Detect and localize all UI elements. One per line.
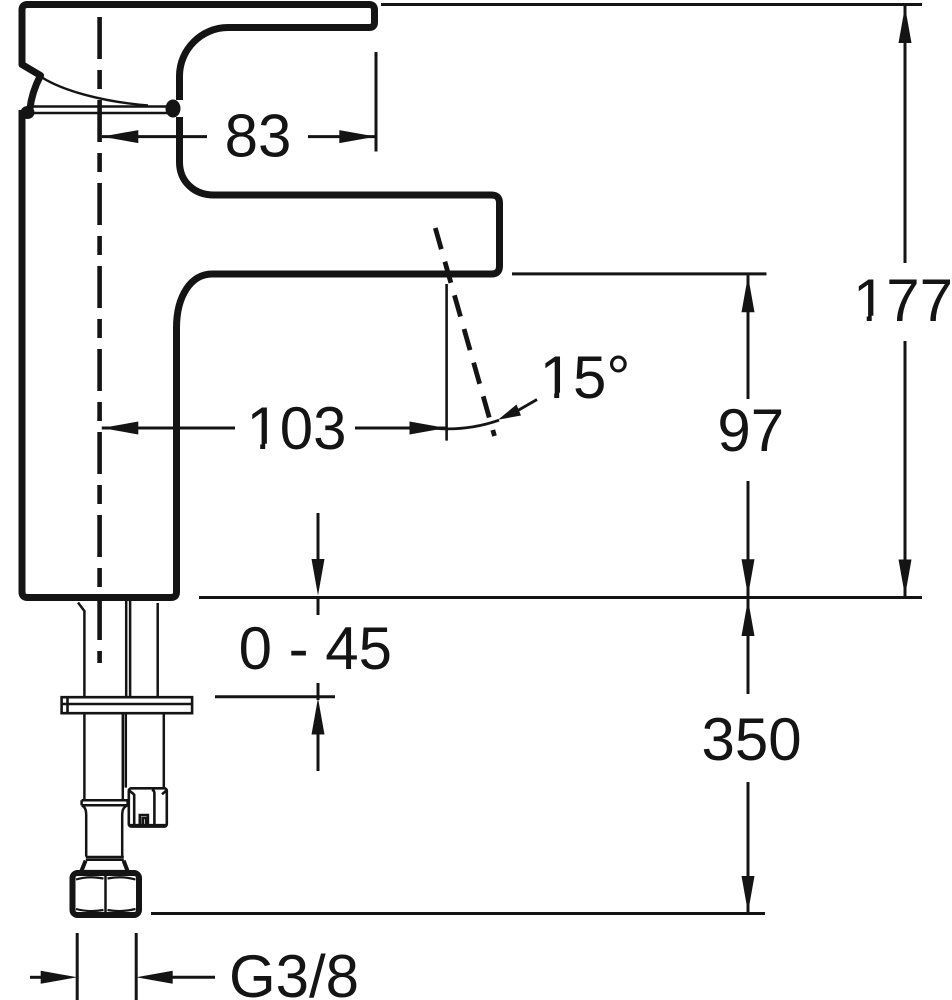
- extension line spout bottom right: [512, 272, 767, 275]
- hose sleeve: [82, 805, 128, 856]
- lever pivot joint left blob: [21, 106, 35, 119]
- angle arc: [436, 420, 499, 429]
- dimension 177: [904, 6, 907, 596]
- hose flare to nut: [81, 861, 127, 871]
- hose nut: [73, 873, 140, 915]
- dimension 0-45 upper arrow: [317, 513, 320, 615]
- hose crimp ring 2: [86, 857, 124, 860]
- lever pivot joint right blob: [166, 100, 181, 118]
- svg-text:350: 350: [702, 706, 802, 773]
- svg-text:G3/8: G3/8: [229, 943, 359, 1000]
- faucet lever handle outline: [22, 5, 375, 111]
- svg-text:15°: 15°: [540, 344, 631, 411]
- faucet body and spout outline: [22, 110, 500, 598]
- mask 1-foot of 103: [249, 444, 261, 450]
- extension line G38 left: [76, 933, 79, 1000]
- hose nut facet shading: [76, 877, 136, 911]
- angle arc arrowhead: [498, 405, 521, 420]
- dimension 103: [102, 427, 446, 430]
- extension line top (lever top level): [381, 3, 922, 6]
- dimension 97: [747, 275, 750, 596]
- svg-text:103: 103: [246, 395, 346, 462]
- hose crimp ring 1: [82, 800, 128, 805]
- svg-text:177: 177: [853, 267, 952, 334]
- dimension 350: [747, 599, 750, 912]
- lever underside curve: [42, 78, 148, 106]
- body centerline dashed: [97, 17, 102, 663]
- angle leader line: [517, 400, 537, 412]
- extension line 83 right: [375, 52, 378, 152]
- hose nut facet divider: [104, 876, 107, 912]
- deck line: [199, 596, 922, 599]
- joint line upper: [27, 105, 168, 107]
- svg-text:83: 83: [225, 103, 292, 170]
- extension line G38 right: [135, 933, 138, 1000]
- mounting shank below body: [78, 601, 158, 696]
- threaded stud: [126, 713, 164, 787]
- hose flare bottom line: [82, 870, 128, 872]
- extension line flange level: [215, 695, 335, 698]
- mask 1-foot of 177: [855, 316, 867, 322]
- dimension 0-45 lower arrow: [317, 683, 320, 771]
- bottom reference line 350: [151, 912, 765, 915]
- mounting flange plate: [62, 697, 193, 713]
- mask 1-foot of 15deg: [543, 393, 555, 399]
- svg-text:0 - 45: 0 - 45: [239, 615, 392, 682]
- supply hose upper tube: [84, 713, 122, 800]
- svg-text:97: 97: [717, 397, 784, 464]
- joint line lower: [27, 112, 168, 114]
- angle vertical reference line: [445, 284, 448, 441]
- spout angle dashed line 15deg: [435, 228, 494, 436]
- hose nut right tab: [137, 883, 141, 906]
- G38 connector nut: [129, 788, 167, 826]
- dimension G38 arrows: [30, 976, 215, 979]
- dimension 83: [102, 135, 376, 138]
